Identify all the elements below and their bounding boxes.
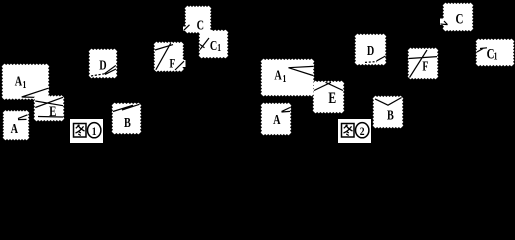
svg-text:C: C: [455, 10, 463, 27]
svg-text:2: 2: [360, 125, 365, 138]
svg-text:1: 1: [217, 42, 221, 53]
svg-text:F: F: [422, 58, 428, 74]
svg-text:D: D: [367, 42, 375, 58]
svg-text:A: A: [274, 67, 282, 83]
svg-text:1: 1: [494, 50, 498, 61]
svg-text:A: A: [11, 120, 19, 136]
svg-text:1: 1: [92, 125, 97, 138]
svg-text:E: E: [49, 102, 57, 119]
svg-text:A: A: [273, 112, 281, 128]
svg-text:A: A: [15, 73, 23, 89]
svg-text:E: E: [328, 90, 336, 107]
svg-text:C: C: [197, 17, 204, 33]
svg-text:D: D: [99, 57, 107, 73]
svg-text:B: B: [387, 107, 394, 123]
svg-text:F: F: [170, 57, 176, 71]
svg-text:B: B: [124, 114, 131, 130]
svg-text:1: 1: [22, 79, 26, 90]
svg-text:1: 1: [282, 73, 286, 84]
svg-text:C: C: [210, 38, 217, 54]
